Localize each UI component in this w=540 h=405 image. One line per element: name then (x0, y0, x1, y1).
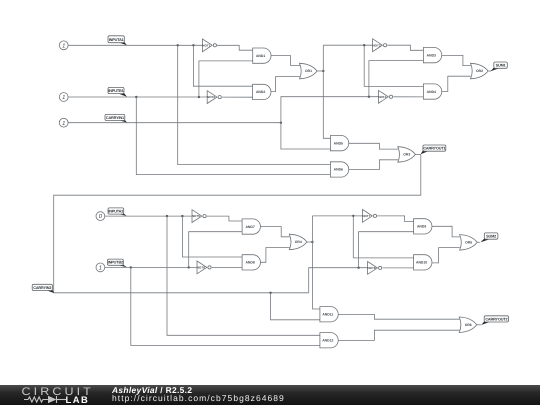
wire AND6 output to OR3 bottom input (349, 160, 398, 170)
and-gate AND12 (320, 333, 338, 348)
svg-text:AND2: AND2 (256, 90, 265, 94)
wire A2 down to AND8 top input (182, 216, 242, 257)
wire AND1 output to OR1 top input (271, 56, 300, 66)
wire net A2 horizontal (105, 215, 192, 217)
label SUM1 (490, 62, 507, 71)
junction XOR2 to AND10 (352, 215, 354, 217)
logo resistor-diode glyph (0, 384, 110, 405)
junction A1 to AND2 (192, 44, 194, 46)
junction XOR2 fanout (311, 241, 313, 243)
or-gate OR1 (300, 63, 318, 79)
svg-text:AND12: AND12 (322, 338, 333, 342)
wire OR4 output stub (307, 241, 313, 243)
junction XOR1 fanout (322, 70, 324, 72)
footer author text (112, 386, 192, 395)
svg-text:INPUTA2: INPUTA2 (108, 210, 123, 214)
wire A2 down to AND12 top input (167, 216, 320, 335)
junction A2 to AND12 (166, 215, 168, 217)
svg-text:AND6: AND6 (334, 168, 343, 172)
junction A1 to AND6 (177, 44, 179, 46)
wire AND12 output to OR6 bottom input (338, 330, 459, 340)
wire AND7 output to OR4 top input (260, 227, 289, 237)
svg-text:AND5: AND5 (334, 141, 343, 145)
svg-text:SUM2: SUM2 (486, 235, 496, 239)
svg-text:CARRYIN2: CARRYIN2 (33, 286, 51, 290)
and-gate AND7 (242, 219, 260, 234)
label CARRYOUT1 (421, 145, 446, 154)
footer bar (0, 385, 540, 405)
label INPUTB1 (108, 87, 127, 96)
wire XOR1 vertical to AND5 top input (323, 45, 330, 138)
label INPUTA2 (108, 208, 127, 216)
wire B2 down to AND12 bottom input (131, 267, 320, 345)
svg-text:CARRYOUT2: CARRYOUT2 (485, 317, 507, 321)
and-gate AND10 (414, 255, 432, 270)
wire AND10 output to OR5 bottom input (432, 248, 460, 263)
wire XOR2 down to AND10 top input (353, 216, 413, 258)
wire B2 up to AND7 bottom input (189, 232, 242, 268)
wire net CARRYIN1 horizontal (68, 122, 281, 124)
wire NOT8 output to AND10 bottom input (382, 267, 413, 269)
wire AND4 output to OR2 bottom input (442, 76, 471, 91)
wire AND3 output to OR2 top input (442, 55, 471, 65)
junction CIN1 to AND3 (368, 96, 370, 98)
label SUM2 (480, 233, 498, 243)
wire NOT7 output to AND9 top input (377, 216, 414, 222)
svg-text:CARRYIN1: CARRYIN1 (106, 116, 124, 120)
junction CIN2 to AND11 (269, 292, 271, 294)
svg-text:AND9: AND9 (417, 225, 426, 229)
svg-text:AND1: AND1 (256, 54, 265, 58)
terminal input B1 (59, 93, 68, 102)
and-gate AND6 (330, 162, 348, 177)
inverter NOT6 (197, 261, 211, 274)
svg-text:1: 1 (62, 43, 65, 49)
svg-text:INPUTB1: INPUTB1 (108, 89, 123, 93)
wire NOT5 output to AND7 top input (207, 216, 243, 221)
svg-text:NOT7: NOT7 (362, 214, 370, 218)
and-gate AND8 (242, 255, 260, 270)
label CARRYOUT2 (481, 316, 508, 325)
label INPUTA1 (108, 36, 127, 45)
and-gate AND2 (253, 84, 271, 99)
svg-text:NOT4: NOT4 (378, 95, 386, 99)
and-gate AND11 (320, 307, 338, 322)
inverter NOT8 (367, 262, 381, 275)
inverter NOT4 (378, 90, 392, 103)
svg-text:AND4: AND4 (427, 90, 436, 94)
wire OR3 output stub (415, 153, 420, 155)
inverter NOT3 (372, 39, 386, 52)
svg-text:OR2: OR2 (476, 69, 483, 73)
svg-text:AND11: AND11 (322, 312, 333, 316)
wire XOR1 to NOT3 input (323, 44, 372, 46)
wire CARRYIN1 up to NOT4 input line (281, 97, 379, 123)
junction XOR1 to AND4 (363, 44, 365, 46)
svg-text:INPUTA1: INPUTA1 (109, 38, 124, 42)
svg-text:NOT6: NOT6 (197, 266, 205, 270)
terminal carry-in 1 (59, 118, 68, 127)
wire OR5 output stub (477, 241, 480, 243)
inverter NOT7 (362, 210, 376, 223)
terminal input A2 (96, 212, 105, 221)
or-gate OR4 (289, 234, 307, 250)
or-gate OR2 (471, 63, 489, 79)
svg-text:NOT5: NOT5 (192, 214, 200, 218)
svg-text:OR5: OR5 (465, 241, 472, 245)
wire CIN2 down to AND11 bottom input (271, 293, 320, 320)
svg-text:AND10: AND10 (416, 261, 427, 265)
svg-text:NOT3: NOT3 (372, 43, 380, 47)
junction CIN2 to AND9 (357, 267, 359, 269)
wire OR6 output stub (477, 324, 481, 326)
wire NOT6 output to AND8 bottom input (212, 266, 242, 268)
wire XOR1 down to AND4 top input (364, 45, 423, 86)
svg-text:1: 1 (99, 266, 102, 272)
terminal input A1 (59, 41, 68, 50)
junction CARRYIN1 fanout (280, 122, 282, 124)
wire NOT1 output to AND1 top input (217, 45, 253, 50)
wire XOR2 vertical to AND11 top input (312, 216, 320, 309)
svg-text:1: 1 (62, 121, 65, 127)
wire AND9 output to OR5 top input (432, 226, 460, 237)
label CARRYIN2 (32, 284, 54, 293)
wire AND2 output to OR1 bottom input (271, 77, 300, 92)
wire AND5 output to OR3 top input (349, 143, 398, 149)
wire CIN2 up to AND9 bottom input (359, 232, 414, 268)
or-gate OR3 (398, 147, 416, 163)
wire OR1 output stub (317, 70, 323, 72)
wire B1 down to AND6 bottom input (136, 97, 330, 175)
wire AND11 output to OR6 top input (338, 314, 459, 319)
wire net B1 horizontal (68, 96, 207, 98)
or-gate OR6 (459, 317, 477, 333)
or-gate OR5 (460, 235, 478, 251)
wire NOT2 output to AND2 bottom input (222, 96, 253, 98)
wire CIN1 down to AND5 bottom input (281, 123, 331, 149)
wire NOT4 output to AND4 bottom input (393, 96, 423, 98)
svg-text:NOT2: NOT2 (207, 95, 215, 99)
junction B1 to AND1 (198, 96, 200, 98)
label CARRYIN1 (105, 114, 127, 122)
svg-text:AND8: AND8 (245, 261, 254, 265)
svg-text:AND7: AND7 (245, 225, 254, 229)
wire A1 down to AND2 top input (193, 45, 252, 86)
svg-text:NOT1: NOT1 (202, 43, 210, 47)
label INPUTB2 (108, 259, 127, 267)
svg-text:OR6: OR6 (465, 323, 472, 327)
svg-text:SUM1: SUM1 (496, 64, 506, 68)
junction B2 to AND12 (130, 266, 132, 268)
wire CIN1 up to AND3 bottom input (369, 61, 424, 97)
junction A2 to AND8 (181, 215, 183, 217)
junction B2 to AND7 (188, 266, 190, 268)
inverter NOT5 (192, 210, 206, 223)
svg-text:OR3: OR3 (403, 153, 410, 157)
wire AND8 output to OR4 bottom input (260, 248, 289, 263)
and-gate AND1 (253, 48, 271, 63)
wire net B2 horizontal (105, 266, 197, 268)
terminal input B2 (96, 263, 105, 272)
svg-text:CARRYOUT1: CARRYOUT1 (423, 147, 445, 151)
footer url text (112, 394, 285, 403)
wire NOT3 output to AND3 top input (387, 45, 423, 50)
svg-text:NOT8: NOT8 (367, 266, 375, 270)
inverter NOT1 (202, 39, 216, 52)
svg-text:OR4: OR4 (295, 240, 302, 244)
inverter NOT2 (207, 91, 221, 104)
svg-text:OR1: OR1 (305, 69, 312, 73)
and-gate AND9 (414, 219, 432, 234)
wire XOR2 to NOT7 input (312, 215, 362, 217)
junction B1 to AND6 (135, 96, 137, 98)
wire OR2 output stub (488, 70, 491, 72)
and-gate AND5 (330, 136, 348, 151)
wire A1 down to AND6 top input (178, 45, 331, 164)
wire carry chain CARRYOUT1 to CARRYIN2 line (54, 154, 421, 292)
wire net A1 horizontal (68, 44, 202, 46)
svg-text:INPUTB2: INPUTB2 (108, 261, 123, 265)
svg-text:AND3: AND3 (427, 53, 436, 57)
wire B1 up to AND1 bottom input (199, 61, 253, 97)
and-gate AND3 (423, 48, 441, 63)
CircuitLab logo LAB (66, 395, 90, 404)
wire CIN2 up to NOT8 input line (309, 268, 368, 293)
svg-text:1: 1 (62, 95, 65, 101)
CircuitLab logo text (22, 387, 94, 397)
and-gate AND4 (423, 84, 441, 99)
